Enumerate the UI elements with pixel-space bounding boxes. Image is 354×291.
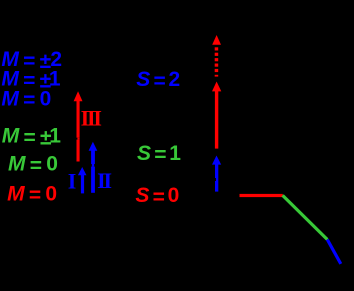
svg-text:M = 0: M = 0 (7, 182, 56, 207)
svg-text:S = 2: S = 2 (136, 68, 179, 93)
svg-text:I: I (68, 168, 77, 193)
svg-text:M = ±1: M = ±1 (2, 125, 61, 150)
svg-text:M = 0: M = 0 (8, 153, 57, 178)
svg-text:M = 0: M = 0 (1, 87, 50, 112)
svg-text:S = 0: S = 0 (135, 184, 178, 209)
svg-text:II: II (97, 168, 111, 193)
svg-text:S = 1: S = 1 (137, 142, 181, 167)
svg-text:III: III (81, 106, 102, 131)
